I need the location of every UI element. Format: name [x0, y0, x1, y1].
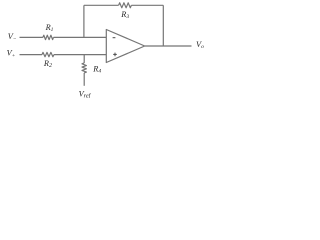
svg-text:V+: V+ [7, 48, 16, 59]
svg-text:Vo: Vo [196, 40, 204, 50]
wire: R2 to op-amp non-inverting input [54, 54, 106, 56]
wire: V- input to R1 [20, 36, 43, 38]
svg-text:R2: R2 [43, 59, 52, 69]
wire: non-inverting node down to R4 [83, 55, 85, 63]
wire: feedback tap vertical from inverting node [83, 5, 85, 37]
resistor R2 [42, 52, 54, 56]
wire: R1 to op-amp inverting input [54, 36, 107, 38]
wire: feedback right vertical to output [162, 5, 164, 46]
wire: V+ input to R2 [20, 54, 43, 56]
resistor R1 [43, 35, 54, 39]
svg-text:R3: R3 [120, 10, 129, 20]
svg-text:Vref: Vref [79, 89, 92, 98]
resistor R3 [119, 3, 132, 8]
op-amp non-inverting input plus symbol [113, 53, 117, 57]
wire: top feedback right segment [131, 4, 163, 6]
op-amp inverting input minus symbol [113, 37, 116, 39]
wire: R4 down to Vref terminal [83, 73, 85, 86]
resistor R4 [82, 63, 86, 73]
wire: output [145, 45, 192, 47]
wire: top feedback left segment [84, 4, 119, 6]
svg-text:R1: R1 [45, 23, 54, 33]
op-amp U1 [106, 30, 144, 63]
svg-text:V−: V− [8, 32, 17, 42]
svg-text:R4: R4 [92, 64, 101, 74]
